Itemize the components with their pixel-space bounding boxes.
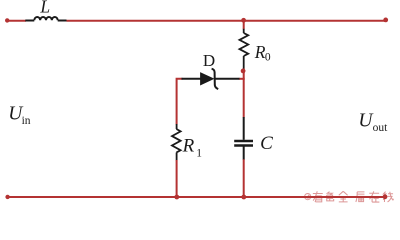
wire bottom red (8, 196, 386, 198)
wire red capacitor to bottom (243, 159, 245, 197)
wire top main red segment (67, 20, 387, 22)
svg-text:0: 0 (265, 52, 271, 64)
diode D triangle (201, 73, 214, 85)
wire red R1 to bottom (176, 160, 178, 197)
wire red vertical R0-to-capacitor (243, 69, 245, 118)
svg-text:out: out (373, 122, 389, 134)
node dot top-left end (5, 18, 9, 22)
resistor R1 (172, 124, 181, 161)
node dot bottom-right end (383, 194, 388, 199)
node dot bottom-left end (5, 195, 9, 199)
node dot top junction at R0 branch (241, 18, 246, 23)
wire red diode-line left corner and down to R1 (177, 79, 183, 125)
svg-text:D: D (203, 51, 215, 70)
resistor R0 (240, 29, 249, 69)
diode D anode lead (182, 78, 202, 80)
capacitor C top lead (243, 117, 245, 140)
wire red stub from top wire to R0 (243, 21, 245, 30)
inductor L (25, 17, 66, 21)
svg-text:1: 1 (196, 147, 202, 159)
node dot bottom R1 junction (174, 195, 179, 200)
wire top-left red segment (7, 20, 26, 22)
wire red diode-line right stub (239, 78, 245, 80)
svg-text:R: R (182, 135, 195, 156)
svg-text:in: in (22, 115, 31, 127)
node dot bottom C junction (241, 195, 246, 200)
diode D cathode lead (216, 78, 240, 80)
watermark text 有色金属在线 (313, 191, 394, 202)
capacitor C top plate (234, 140, 253, 143)
capacitor C bottom plate (234, 144, 253, 147)
svg-text:C: C (260, 133, 273, 154)
capacitor C bottom lead (243, 147, 245, 160)
svg-text:L: L (39, 0, 50, 17)
watermark symbol (305, 194, 311, 200)
diode D cathode bar with hooks (212, 69, 219, 89)
node dot top-right end (383, 18, 388, 23)
node dot R0 bottom (241, 69, 246, 74)
